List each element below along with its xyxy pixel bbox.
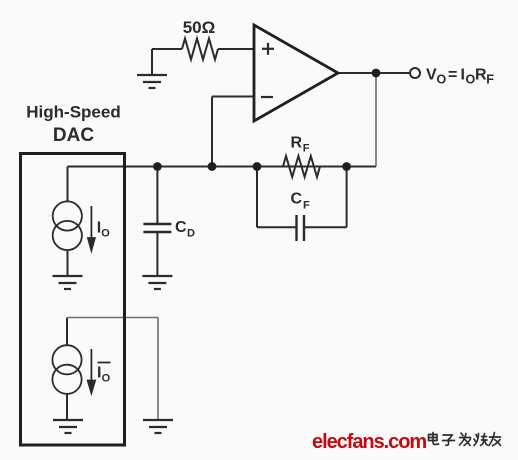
svg-text:O: O [102, 373, 111, 385]
svg-text:O: O [437, 73, 447, 87]
svg-text:elecfans.com: elecfans.com [312, 431, 426, 453]
svg-text:O: O [466, 73, 476, 87]
svg-text:C: C [175, 219, 187, 236]
svg-text:C: C [291, 191, 303, 208]
svg-text:R: R [291, 135, 303, 152]
svg-text:R: R [475, 67, 487, 84]
svg-text:V: V [426, 67, 437, 84]
svg-text:D: D [187, 228, 195, 240]
svg-text:F: F [303, 143, 310, 155]
svg-text:DAC: DAC [53, 125, 94, 146]
svg-text:=: = [448, 67, 457, 84]
svg-text:50Ω: 50Ω [183, 18, 216, 37]
svg-text:O: O [101, 228, 110, 240]
svg-text:F: F [303, 200, 310, 212]
svg-text:High-Speed: High-Speed [26, 103, 120, 122]
svg-text:I: I [461, 67, 465, 84]
svg-text:F: F [486, 73, 494, 87]
